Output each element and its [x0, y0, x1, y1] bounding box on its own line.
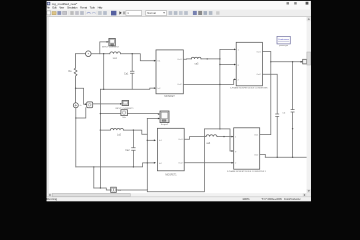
wire long riser x147	[146, 118, 148, 189]
wire VM1 output to scope2	[93, 103, 120, 105]
scope SC1 input current	[109, 38, 115, 46]
svg-text:La1: La1	[113, 57, 118, 60]
node Out2 riser cross	[219, 84, 220, 85]
canvas	[48, 17, 307, 193]
subsystem B3 three-phase converter	[236, 42, 262, 86]
toolbar	[47, 10, 311, 17]
svg-text:Edit: Edit	[52, 5, 56, 9]
arrow into B4 port3	[232, 162, 234, 164]
node top rail / descender	[103, 53, 104, 54]
arrow into B1 In1	[154, 60, 156, 62]
subsystem B2 boost converter 2	[157, 128, 184, 171]
arrow into B2 In2	[154, 162, 156, 164]
wire negative rail into B1 In2	[100, 88, 153, 89]
wire lower return rail	[76, 163, 154, 167]
svg-text:3-PHASE MOSFET/DIODE CONVERTER: 3-PHASE MOSFET/DIODE CONVERTER 1	[227, 170, 267, 173]
subsystem B1 boost converter	[156, 50, 183, 94]
gauge block GB	[121, 110, 128, 116]
DC source VS1	[73, 103, 78, 108]
node V2 gauge	[100, 113, 101, 114]
wire gate branch to B4 port2	[220, 129, 232, 151]
wire B2 Out1 to B4 port1	[184, 137, 231, 140]
svg-text:INPUT CURRENT: INPUT CURRENT	[102, 47, 120, 49]
wire riser bus x220	[219, 49, 221, 128]
svg-text:Running: Running	[46, 197, 57, 201]
arrow into G2 in1	[158, 113, 160, 115]
svg-text:T=7.000e+006: T=7.000e+006	[261, 197, 282, 201]
svg-text:Tools: Tools	[90, 5, 96, 9]
wire B2 Out2 to B4 port3	[184, 162, 231, 164]
svg-text:Simulation: Simulation	[67, 5, 78, 9]
wire to load block W1	[271, 61, 302, 63]
node V2 lower rail	[100, 129, 101, 130]
resistor Ra	[74, 54, 77, 103]
arrow into B2 In1	[154, 139, 156, 141]
wire B4 Out2 to bottom bus	[260, 154, 266, 157]
node loop on source line	[75, 117, 76, 118]
svg-text:Help: Help	[98, 5, 103, 9]
svg-text:Vdc: Vdc	[122, 117, 126, 119]
node branch x292	[292, 61, 293, 62]
inductor ua5	[191, 57, 201, 59]
wire gauge line	[100, 113, 157, 115]
svg-text:MOSFET1: MOSFET1	[165, 173, 177, 176]
svg-text:3-PHASE MOSFET/DIODE CONVERTER: 3-PHASE MOSFET/DIODE CONVERTER	[230, 86, 268, 89]
wire ground drop x93.8	[93, 167, 95, 188]
menu bar	[46, 5, 103, 9]
node x292 mid	[292, 128, 293, 129]
svg-text:100%: 100%	[242, 197, 250, 201]
svg-text:Ca1: Ca1	[124, 72, 129, 75]
arrow into VM1	[85, 103, 87, 105]
svg-text:g: g	[235, 151, 236, 153]
arrow into B4 port2	[232, 150, 234, 152]
svg-text:Scope2: Scope2	[161, 124, 169, 126]
wire gate tap into B3 port2	[220, 64, 234, 66]
node after ua5	[207, 58, 208, 59]
wire B1 Out1 to riser	[183, 58, 220, 60]
node ground bus V2	[100, 187, 101, 188]
wire VM1 bottom loop	[76, 108, 86, 118]
wire top rail from left corner to current sensor	[76, 53, 86, 55]
wire top rail from sensor to corner into B1	[91, 54, 154, 61]
arrow into scope SC2	[120, 103, 122, 105]
svg-text:Vab: Vab	[118, 190, 121, 192]
svg-text:MOSFET: MOSFET	[164, 95, 175, 98]
title bar icon	[47, 2, 50, 5]
node In2 crossing	[147, 162, 148, 163]
wire branch x292 with element	[291, 62, 294, 158]
svg-text:Format: Format	[80, 5, 87, 9]
wire V2 long vertical	[99, 89, 101, 188]
node Ca2 bottom	[133, 166, 134, 167]
voltage measurement VM1	[87, 102, 93, 108]
node Ca1 top	[132, 53, 133, 54]
inductor ua6	[206, 135, 217, 137]
node bus x277	[277, 157, 278, 158]
svg-text:SimulinkTimeRecorder: SimulinkTimeRecorder	[284, 198, 301, 201]
node V2 top	[103, 89, 104, 90]
node gate corner	[219, 128, 220, 129]
svg-text:La2: La2	[117, 133, 122, 136]
scope G2 two inputs	[160, 111, 169, 123]
wire right bottom bus	[265, 156, 306, 158]
load block W1	[303, 59, 307, 64]
wire riser to input current scope	[100, 42, 107, 54]
application window	[47, 1, 311, 201]
arrow into scope SC1	[107, 41, 109, 43]
node branch	[75, 88, 76, 89]
node bus x292	[292, 157, 293, 158]
arrow into G2 in2	[158, 118, 160, 120]
arrow into B1 In2	[154, 87, 156, 89]
capacitor Ca1	[130, 54, 134, 90]
node gate tap	[219, 64, 220, 65]
svg-text:powergui: powergui	[279, 44, 288, 47]
horizontal scrollbar	[48, 193, 307, 197]
svg-text:g: g	[238, 64, 239, 66]
capacitor Ca2	[132, 130, 136, 167]
wire B3 Out2 down with capacitor Cb	[262, 74, 278, 157]
wire lower rail to La2	[100, 130, 147, 134]
svg-text:Ca2: Ca2	[125, 149, 130, 152]
arrow into W1	[301, 61, 303, 63]
node riser Out1	[219, 58, 220, 59]
wire ground path left from corner	[147, 129, 220, 192]
node after ua6	[223, 136, 224, 137]
svg-text:Continuous: Continuous	[278, 38, 290, 41]
scope SC2	[122, 101, 129, 106]
arrow into B4 port1	[232, 136, 234, 138]
wire branch to measurement block	[76, 88, 85, 104]
node Ca2 top	[133, 129, 134, 130]
wire B3 Out1 down to B4 Out1	[260, 52, 271, 135]
wire riser to gate scope in2	[147, 117, 158, 119]
status bar	[47, 197, 311, 201]
vertical scrollbar	[307, 17, 311, 193]
svg-text:File: File	[46, 5, 50, 9]
inductor La2	[110, 128, 123, 130]
arrow into B3 port2	[234, 64, 236, 66]
wire source bottom down to lower return	[75, 108, 77, 167]
subsystem B4 three-phase converter 1	[234, 128, 260, 169]
wire branch into B2 In1	[147, 139, 154, 141]
arrow into B3 port3	[234, 79, 236, 81]
node dc link	[270, 61, 271, 62]
node In1 branch	[147, 140, 148, 141]
powergui block	[277, 36, 290, 44]
inductor La1	[110, 52, 121, 54]
wire into B3 port1	[220, 48, 234, 50]
wire ground bus segment with jog	[94, 188, 148, 190]
svg-text:Normal: Normal	[147, 11, 156, 15]
measurement block SB on ground bus	[111, 187, 117, 192]
current measurement CM1	[86, 51, 92, 57]
wire B1 Out2 to B3 port3	[183, 79, 235, 84]
arrow into B3 port1	[234, 49, 236, 51]
node return at x93.8	[93, 166, 94, 167]
window buttons	[287, 2, 290, 4]
wire descender to negative rail	[103, 54, 105, 90]
